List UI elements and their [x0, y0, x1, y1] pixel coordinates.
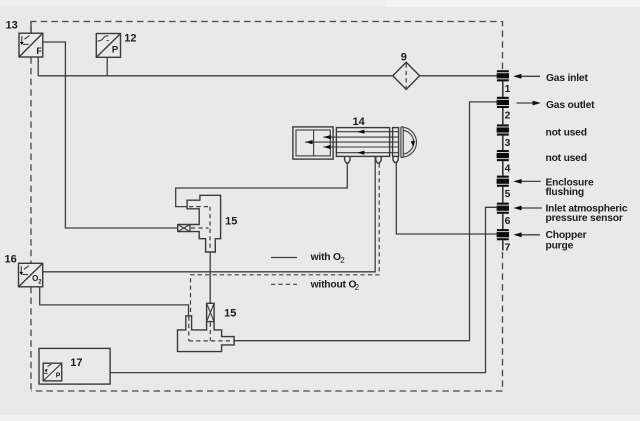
svg-text:15: 15	[224, 308, 236, 320]
analyzer assembly 14	[293, 116, 417, 163]
svg-text:6: 6	[505, 216, 511, 227]
svg-text:7: 7	[505, 243, 511, 254]
wire: sensor 13 to valve 15	[43, 42, 178, 228]
valve block 15 (upper)	[178, 195, 238, 252]
wire: without O2 dashed bypass	[191, 164, 380, 316]
port 7 Chopper purge	[497, 229, 587, 254]
flow sensor 13	[6, 20, 43, 58]
enclosure boundary (dashed)	[31, 22, 503, 392]
svg-text:without O: without O	[310, 280, 357, 291]
svg-text:Chopper: Chopper	[546, 230, 587, 241]
wire: valve block 15 to valve block 15 lower	[209, 252, 211, 303]
svg-text:purge: purge	[546, 241, 574, 252]
wire: chopper to port 7	[396, 163, 496, 235]
wire: with O2 path (cell to O2 sensor 16)	[43, 157, 376, 272]
measuring cell	[336, 128, 389, 157]
O2 sensor 16	[5, 254, 43, 287]
port 1 Gas inlet	[497, 70, 589, 95]
svg-text:Gas inlet: Gas inlet	[546, 73, 588, 84]
svg-text:15: 15	[225, 216, 237, 228]
svg-text:P: P	[56, 372, 61, 379]
arrows	[357, 130, 364, 134]
port 3 not used	[497, 124, 587, 149]
window	[393, 128, 399, 157]
legs	[345, 157, 350, 163]
chopper housing left box	[293, 127, 333, 159]
svg-text:2: 2	[505, 110, 511, 121]
wire: cell left leg to valve block 15 arm	[176, 163, 348, 207]
port 4 not used	[497, 150, 587, 175]
pressure sensor 12	[96, 33, 136, 58]
svg-text:5: 5	[505, 189, 511, 200]
port 6 Inlet atmospheric pressure sensor	[497, 203, 628, 228]
port 5 Enclosure flushing	[497, 176, 594, 201]
svg-text:pressure sensor: pressure sensor	[546, 213, 623, 224]
valve block 15 (lower)	[178, 303, 237, 351]
svg-text:F: F	[36, 46, 42, 56]
svg-text:13: 13	[6, 20, 18, 32]
ports column connectors	[502, 81, 504, 229]
svg-text:16: 16	[5, 254, 17, 266]
svg-text:not used: not used	[546, 153, 587, 164]
svg-text:not used: not used	[546, 128, 587, 139]
svg-text:Gas outlet: Gas outlet	[546, 100, 595, 111]
wire: valve block lower to gas outlet port 2	[234, 102, 497, 341]
svg-text:2: 2	[355, 283, 360, 292]
svg-text:14: 14	[353, 116, 366, 128]
svg-text:with O: with O	[310, 252, 341, 263]
svg-text:17: 17	[70, 357, 82, 369]
svg-text:4: 4	[505, 164, 511, 175]
filter 9	[393, 52, 420, 90]
svg-text:P: P	[112, 45, 119, 56]
legend without O2	[271, 280, 360, 293]
svg-text:1: 1	[505, 84, 511, 95]
svg-text:3: 3	[505, 138, 511, 149]
svg-text:12: 12	[124, 33, 136, 45]
port 2 Gas outlet	[497, 97, 596, 122]
svg-text:9: 9	[401, 52, 407, 64]
pressure sensor box 17	[39, 348, 110, 384]
wire: O2 sensor 16 to valve block 15 lower	[40, 287, 189, 316]
svg-text:flushing: flushing	[546, 187, 584, 198]
legend with O2	[271, 252, 345, 265]
wire: sensor 17 to port 6	[110, 207, 497, 372]
wire: main gas line (port1 to filter to sensors)	[38, 57, 496, 76]
chopper motor	[400, 127, 402, 158]
svg-text:2: 2	[340, 256, 345, 265]
